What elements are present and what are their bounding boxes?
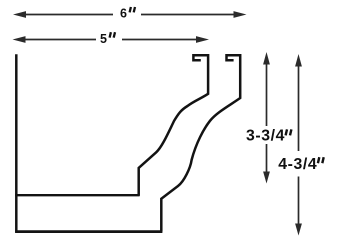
dimension arrow 4-3/4 inch overall height xyxy=(295,54,302,236)
gutter inner bottom line xyxy=(15,194,139,196)
dimension arrow 6-inch top width xyxy=(13,11,247,18)
dimension arrow 3-3/4 inch front height xyxy=(263,52,270,184)
svg-text:3-3/4: 3-3/4 xyxy=(246,128,285,145)
dimension arrow 5-inch inner width xyxy=(13,36,210,43)
gutter outer ogee profile with hem hook xyxy=(161,55,240,231)
gutter inner ogee profile with hem hook xyxy=(139,55,208,195)
gutter back wall xyxy=(15,54,18,233)
gutter outer bottom line xyxy=(15,230,162,233)
svg-text:5: 5 xyxy=(100,32,107,46)
svg-text:4-3/4: 4-3/4 xyxy=(278,156,317,173)
svg-text:6: 6 xyxy=(120,7,127,21)
